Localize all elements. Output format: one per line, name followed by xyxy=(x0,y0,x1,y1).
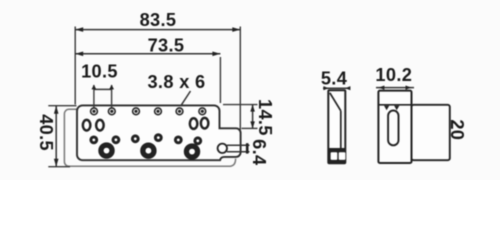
side view B wedge 2 xyxy=(394,106,399,111)
dimension 40.5 line xyxy=(54,106,59,167)
dimension 14.5 extension line top xyxy=(223,104,258,106)
svg-text:20: 20 xyxy=(447,119,467,140)
side view B block (right rect) xyxy=(412,105,450,160)
side view A inner vertical line xyxy=(340,111,342,148)
svg-text:73.5: 73.5 xyxy=(148,35,185,55)
side view A bottom hole 2 xyxy=(339,152,346,160)
tab stud slot top line xyxy=(227,144,250,146)
svg-text:14.5: 14.5 xyxy=(255,99,275,136)
dimension 40.5 extension line top xyxy=(48,105,76,107)
dimension 10.2 line xyxy=(376,86,414,90)
dimension 10.5 extension line right xyxy=(111,85,113,108)
oval slot right 1 xyxy=(190,118,198,129)
screw donut 4 xyxy=(154,133,163,142)
svg-text:83.5: 83.5 xyxy=(140,10,177,30)
string hole 2 (top row) xyxy=(108,108,115,115)
tab stud slot bottom line xyxy=(227,151,250,153)
plate outline with right tab xyxy=(77,105,241,160)
oval slot left 2 xyxy=(96,120,104,131)
svg-text:5.4: 5.4 xyxy=(321,69,348,89)
side view A bottom band xyxy=(328,148,345,163)
side view B wedge 1 xyxy=(384,106,389,111)
side view B bend line xyxy=(378,104,411,106)
leader line 3.8x6 xyxy=(181,91,191,106)
dimension 83.5 extension line left xyxy=(74,27,76,105)
svg-text:10.2: 10.2 xyxy=(375,65,412,85)
dimension 73.5 line xyxy=(75,52,220,57)
string hole 3 (top row) xyxy=(133,108,140,115)
big bushing hole 2 xyxy=(140,143,156,159)
big bushing hole 1 xyxy=(98,142,114,158)
svg-text:6.4: 6.4 xyxy=(249,139,269,166)
side view A bottom hole 1 xyxy=(331,152,338,160)
dimension 10.5 extension line left xyxy=(93,85,95,108)
dimension 83.5 line xyxy=(75,27,240,32)
screw donut 5 xyxy=(174,136,183,145)
side view B outline xyxy=(378,91,411,163)
svg-text:3.8 x 6: 3.8 x 6 xyxy=(147,72,205,92)
screw donut 2 xyxy=(112,135,121,144)
dimension 5.4 line xyxy=(323,86,350,90)
string hole 1 (top row) xyxy=(91,108,98,115)
dimension 14.5 line xyxy=(250,105,255,129)
side view B slot capsule xyxy=(388,111,398,146)
string hole 5 (top row) xyxy=(176,108,183,115)
screw donut 1 xyxy=(89,136,98,145)
string hole 6 (top row) xyxy=(199,108,206,115)
oval slot left 1 xyxy=(83,120,91,131)
dimension 83.5 extension line right xyxy=(239,27,241,131)
dimension 40.5 extension line bottom xyxy=(48,166,70,168)
dimension 14.5 extension line bottom xyxy=(242,127,258,129)
screw donut 6 xyxy=(193,136,202,145)
svg-text:40.5: 40.5 xyxy=(36,114,56,151)
side view A chamfer diagonal xyxy=(330,93,341,111)
tab stud circle xyxy=(218,144,227,153)
string hole 4 (top row) xyxy=(155,108,162,115)
screw donut 3 xyxy=(131,134,140,143)
dimension 10.5 line xyxy=(92,85,115,90)
side view A outline xyxy=(328,90,345,163)
dimension 6.4 bar xyxy=(246,143,249,153)
dimension 73.5 extension line right xyxy=(219,57,221,103)
big bushing hole 3 xyxy=(184,143,200,159)
svg-text:10.5: 10.5 xyxy=(81,62,118,82)
oval slot right 2 xyxy=(201,118,209,129)
flange outline (lower base plate, light gray) xyxy=(64,109,235,166)
